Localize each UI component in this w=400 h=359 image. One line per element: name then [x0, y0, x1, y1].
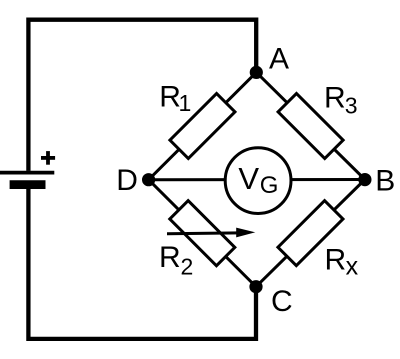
resistor R1 (arm A-D) [170, 93, 235, 158]
svg-text:B: B [375, 164, 395, 197]
galvanometer VG (circle) [225, 148, 291, 214]
wire: battery positive terminal up and across top to node A [28, 20, 256, 171]
svg-text:D: D [116, 164, 138, 197]
battery positive plate [0, 171, 54, 175]
wire: battery negative terminal down and across bottom to node C [28, 185, 256, 339]
battery negative plate [10, 180, 46, 189]
resistor R2 (variable, arm D-C) [170, 201, 235, 266]
node A (junction dot) [250, 66, 263, 79]
wire: bridge arm A to D [149, 72, 257, 179]
svg-text:x: x [346, 253, 359, 281]
node B (junction dot) [358, 173, 371, 186]
wire: bridge arm D to C [149, 180, 256, 287]
wire: bridge arm A to B [256, 72, 365, 179]
svg-text:G: G [260, 172, 279, 199]
svg-text:R: R [325, 244, 347, 277]
galvanometer label VG [238, 161, 278, 199]
label Rx [325, 244, 359, 281]
svg-text:3: 3 [345, 93, 358, 119]
svg-text:1: 1 [179, 90, 192, 116]
svg-text:V: V [238, 161, 259, 196]
svg-text:2: 2 [181, 253, 194, 279]
svg-text:R: R [324, 82, 346, 115]
node C (junction dot) [249, 280, 262, 293]
node D (junction dot) [142, 173, 155, 186]
label R3 [324, 82, 358, 119]
battery polarity + sign [41, 151, 55, 165]
variable resistor arrow through R2 [167, 228, 255, 238]
resistor Rx (arm C-B) [278, 201, 343, 266]
svg-text:R: R [159, 241, 181, 274]
resistor R3 (arm A-B) [278, 93, 343, 158]
svg-text:C: C [271, 285, 293, 318]
label R1 [159, 81, 191, 117]
wire: galvanometer branch D to B [149, 178, 365, 181]
label R2 [159, 241, 193, 280]
svg-text:A: A [269, 43, 289, 76]
wire: bridge arm C to B [256, 180, 365, 287]
